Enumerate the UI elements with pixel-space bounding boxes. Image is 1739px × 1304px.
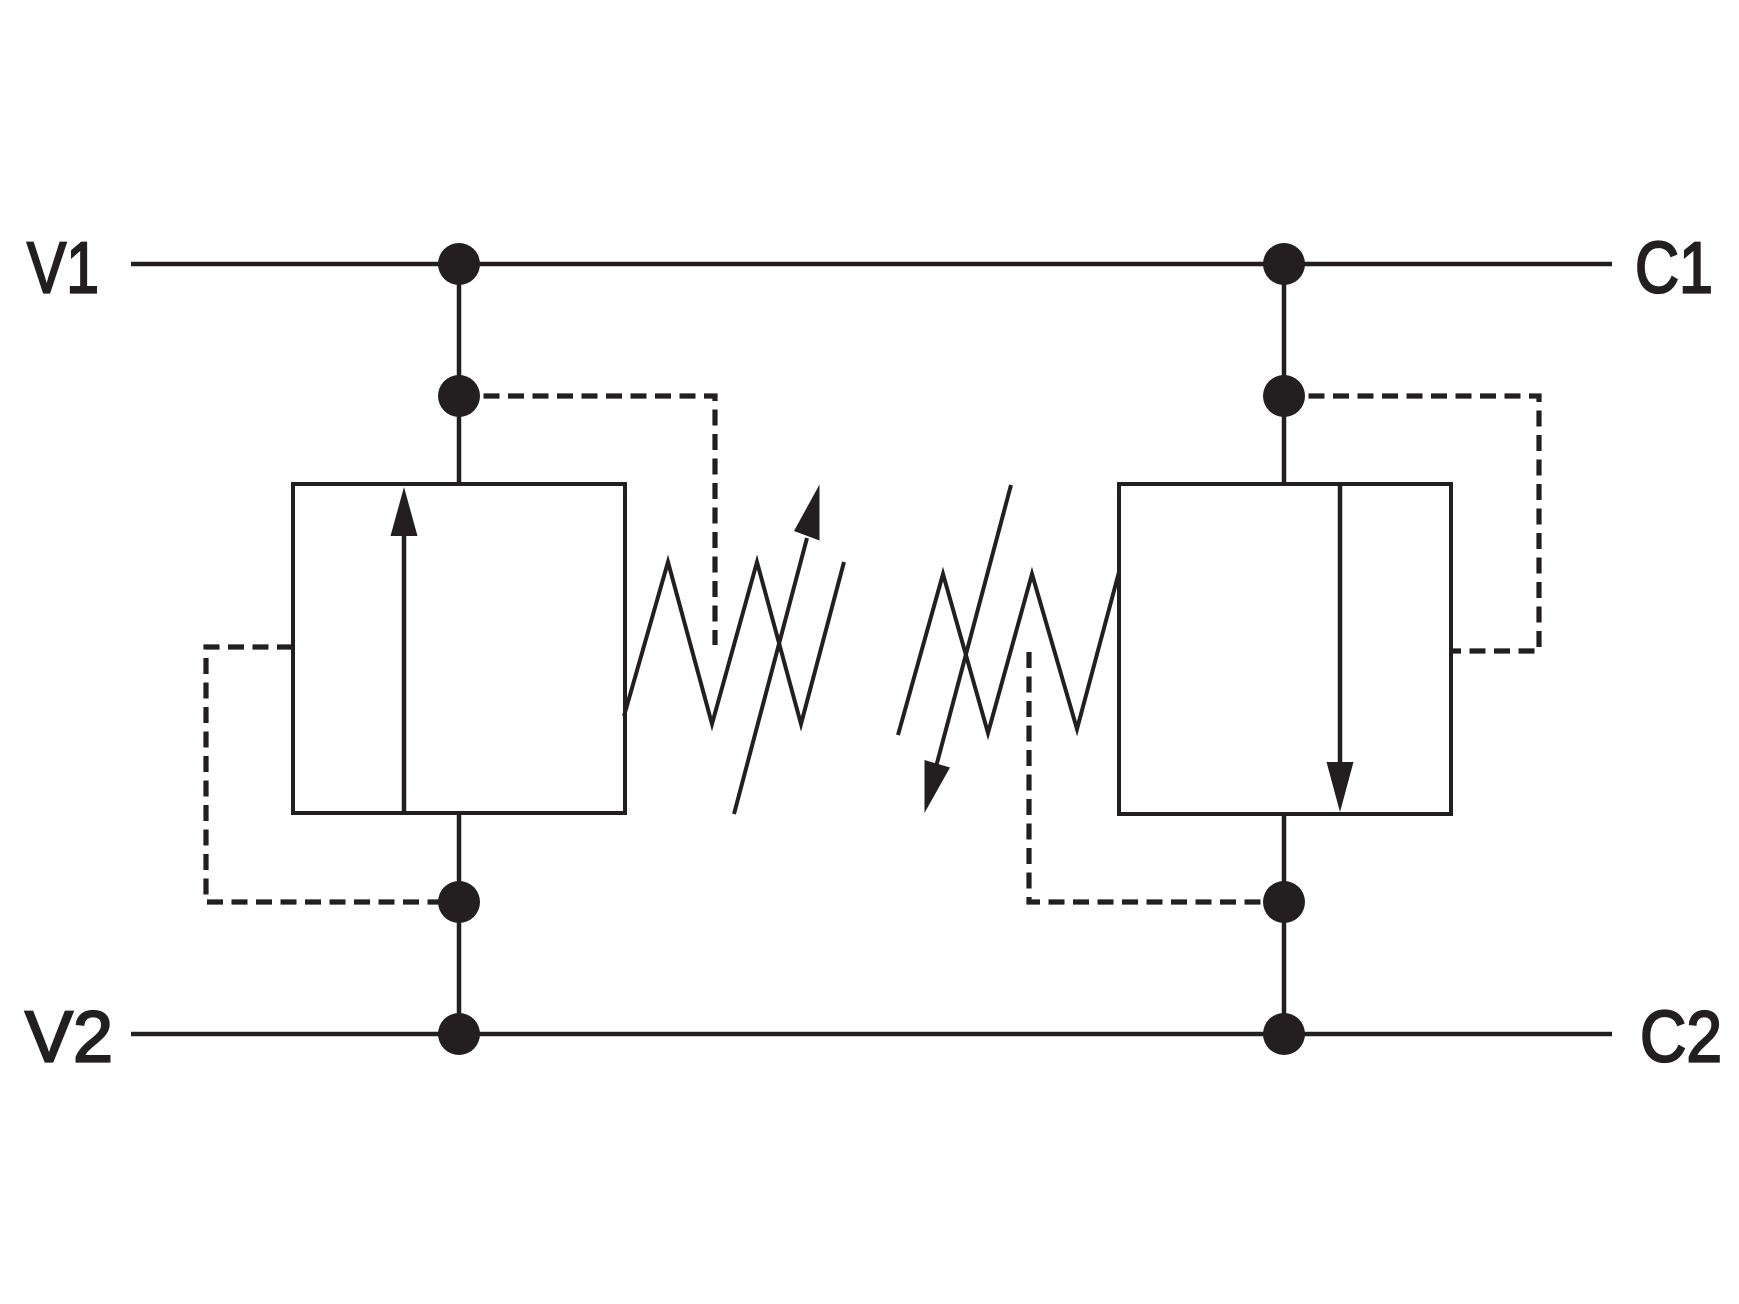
adjustment arrow of valve CV2 spring [925, 485, 1012, 813]
pilot line from CV2 pilot port to node D (dashed) [1029, 652, 1284, 902]
wire V1-C1 top bus [131, 262, 1612, 267]
wire left supply lower segment [457, 813, 462, 1034]
wire left supply upper segment [457, 264, 462, 484]
valve CV1 envelope (left relief valve body) [293, 484, 625, 813]
pilot line from node A to CV1 spring side (dashed) [459, 396, 715, 645]
pilot line from CV1 pilot port to node C (dashed) [206, 647, 459, 902]
adjustment arrow of valve CV1 spring [734, 485, 820, 815]
wire V2-C2 bottom bus [131, 1032, 1612, 1037]
svg-text:C1: C1 [1635, 229, 1713, 309]
node A junction dot (left upper pilot tap) [438, 375, 480, 417]
wire right supply lower segment [1282, 814, 1287, 1034]
spring of valve CV1 [624, 562, 844, 724]
pilot line from node B to CV2 spring side (dashed) [1284, 396, 1539, 651]
valve CV2 envelope (right relief valve body) [1119, 484, 1451, 814]
valve CV2 flow arrow (down) [1327, 484, 1354, 812]
junction dot C2 bus / right supply [1263, 1013, 1305, 1055]
svg-text:V1: V1 [27, 229, 99, 309]
svg-text:C2: C2 [1640, 998, 1722, 1078]
junction dot C1 bus / right supply [1263, 243, 1305, 285]
wire right supply upper segment [1282, 264, 1287, 484]
junction dot V1 bus / left supply [438, 243, 480, 285]
svg-text:V2: V2 [25, 998, 113, 1078]
node D junction dot (right lower pilot tap) [1263, 881, 1305, 923]
junction dot V2 bus / left supply [438, 1013, 480, 1055]
node C junction dot (left lower pilot tap) [438, 881, 480, 923]
valve CV1 flow arrow (up) [391, 487, 418, 813]
node B junction dot (right upper pilot tap) [1263, 375, 1305, 417]
spring of valve CV2 [898, 572, 1119, 735]
